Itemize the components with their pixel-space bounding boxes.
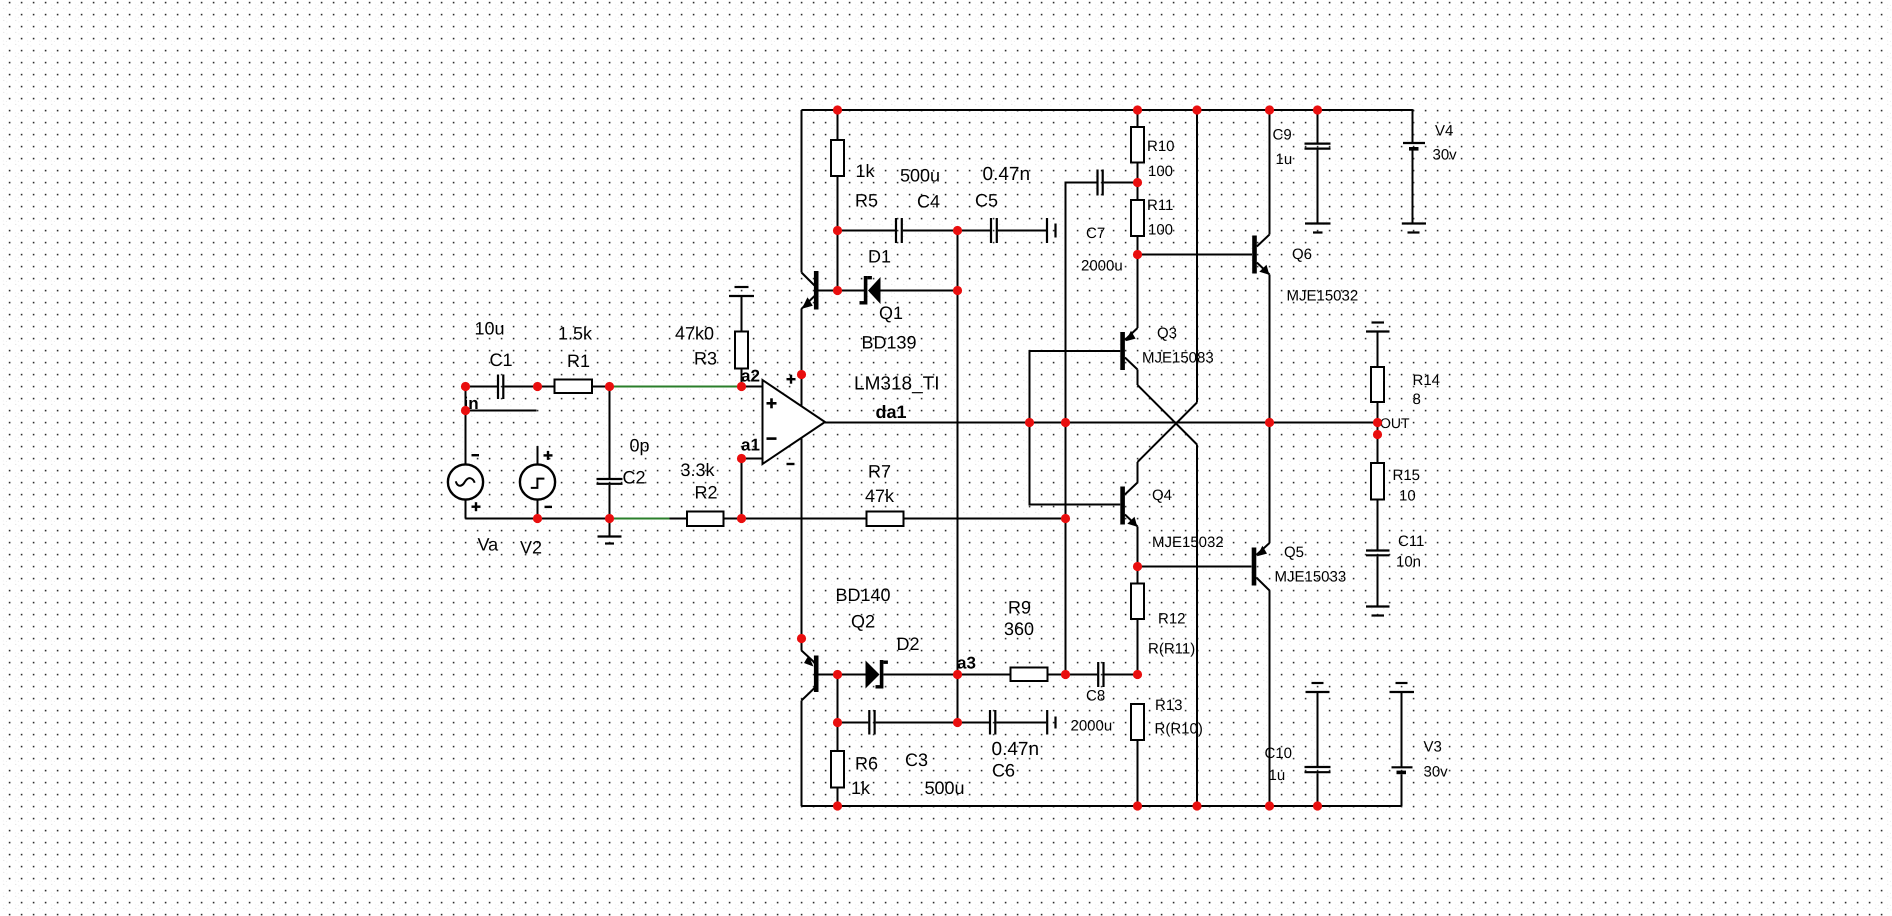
svg-text:C7: C7 bbox=[1086, 225, 1105, 242]
svg-text:LM318_TI: LM318_TI bbox=[854, 374, 940, 395]
junction rail C9 bbox=[1313, 105, 1322, 114]
wire vertical bus x957 bottom bbox=[957, 675, 959, 723]
svg-text:a1: a1 bbox=[741, 436, 760, 455]
transistor Q6 MJE15032 bbox=[1252, 110, 1269, 423]
wire Q3 base line bbox=[1030, 351, 1121, 505]
capacitor C10 bbox=[1305, 692, 1331, 806]
junction R13 bottom rail bbox=[1133, 801, 1142, 810]
junction R11-Q6 base bbox=[1133, 250, 1142, 259]
svg-text:0.47n: 0.47n bbox=[992, 739, 1040, 760]
svg-text:100: 100 bbox=[1148, 163, 1173, 180]
capacitor C4 bbox=[838, 218, 958, 243]
junction a2 bbox=[737, 382, 746, 391]
junction OUT node bbox=[1373, 418, 1382, 427]
resistor R14 bbox=[1371, 332, 1384, 423]
svg-text:D1: D1 bbox=[868, 247, 891, 267]
open capacitor end plate (bottom row) bbox=[1047, 710, 1055, 735]
junction Q1 base bbox=[833, 286, 842, 295]
svg-text:C4: C4 bbox=[917, 192, 940, 212]
svg-text:1.5k: 1.5k bbox=[558, 324, 593, 344]
voltage source Va bbox=[448, 411, 483, 519]
svg-text:MJE15032: MJE15032 bbox=[1152, 534, 1224, 551]
svg-text:R(R10): R(R10) bbox=[1155, 721, 1203, 738]
minus sign op-amp input bbox=[767, 437, 777, 440]
inverted ground above V3 bbox=[1390, 683, 1415, 692]
svg-text:Q2: Q2 bbox=[851, 612, 875, 632]
resistor R7 bbox=[742, 512, 1066, 527]
capacitor C1 bbox=[498, 375, 538, 400]
junction op-amp -V pin bbox=[797, 634, 806, 643]
svg-text:a3: a3 bbox=[957, 654, 976, 673]
resistor R2 bbox=[687, 512, 742, 527]
transistor Q4 MJE15032 bbox=[1120, 462, 1137, 567]
junction node in tag bbox=[461, 406, 470, 415]
svg-text:C5: C5 bbox=[975, 191, 998, 211]
svg-text:R(R11): R(R11) bbox=[1148, 641, 1195, 658]
capacitor C9 bbox=[1305, 110, 1331, 224]
junction C1-R1 bbox=[533, 382, 542, 391]
junction R5-C4 bbox=[833, 226, 842, 235]
inverted ground above C10 bbox=[1306, 683, 1330, 692]
transistor Q5 MJE15033 bbox=[1252, 423, 1270, 807]
resistor R6 bbox=[831, 723, 844, 807]
wire green C2 node to R2 bbox=[612, 518, 670, 520]
svg-text:BD139: BD139 bbox=[862, 333, 917, 353]
junction rail Q5 collector bbox=[1265, 801, 1274, 810]
resistor R15 bbox=[1371, 423, 1384, 551]
svg-text:Q6: Q6 bbox=[1292, 246, 1312, 263]
wire diagonal Q3 to lower bus bbox=[1138, 385, 1198, 445]
svg-text:47k: 47k bbox=[865, 486, 895, 506]
svg-text:2000u: 2000u bbox=[1071, 718, 1113, 735]
ground below C11 bbox=[1366, 607, 1390, 616]
svg-text:R2: R2 bbox=[695, 483, 718, 503]
svg-text:OUT: OUT bbox=[1380, 415, 1410, 431]
junction rail x1197 bottom bbox=[1192, 801, 1201, 810]
junction out Q5-Q6 emitters bbox=[1265, 418, 1274, 427]
junction C6 left bbox=[953, 718, 962, 727]
svg-text:MJE15032: MJE15032 bbox=[1287, 288, 1359, 305]
capacitor C5 bbox=[958, 218, 1047, 243]
resistor R10 bbox=[1131, 110, 1144, 200]
junction rail C10 bbox=[1313, 801, 1322, 810]
svg-text:R15: R15 bbox=[1393, 467, 1421, 484]
svg-text:MJE15033: MJE15033 bbox=[1275, 569, 1347, 586]
minus sign V2 bottom bbox=[545, 506, 553, 508]
wire top positive rail bbox=[802, 109, 1413, 111]
wire vertical bus x957 top bbox=[957, 231, 959, 675]
resistor R3 bbox=[735, 296, 748, 387]
junction R12-R13-C8 bbox=[1133, 670, 1142, 679]
junction R6 bottom rail bbox=[833, 801, 842, 810]
capacitor C6 bbox=[958, 710, 1047, 735]
transistor Q3 MJE15083 bbox=[1120, 255, 1137, 386]
transistor Q1 BD139 bbox=[802, 271, 838, 310]
svg-text:10: 10 bbox=[1399, 488, 1416, 505]
svg-text:2000u: 2000u bbox=[1081, 258, 1123, 275]
wire Q2 base node down bbox=[837, 675, 839, 723]
resistor R1 bbox=[538, 380, 612, 394]
junction out line x1029 bbox=[1025, 418, 1034, 427]
plus sign op-amp supply bbox=[787, 375, 796, 384]
svg-text:R13: R13 bbox=[1155, 697, 1183, 714]
junction V2 bottom bbox=[533, 514, 542, 523]
voltage source V2 bbox=[520, 446, 555, 519]
svg-text:10n: 10n bbox=[1396, 554, 1421, 571]
wire a2 to op-amp bbox=[742, 386, 763, 388]
svg-text:R11: R11 bbox=[1147, 197, 1173, 214]
svg-text:C9: C9 bbox=[1273, 127, 1292, 144]
junction D1 right bbox=[953, 286, 962, 295]
capacitor C11 bbox=[1366, 551, 1390, 607]
wire bottom negative rail bbox=[802, 805, 1402, 807]
wire green in+ to a2 bbox=[611, 386, 741, 388]
svg-text:R6: R6 bbox=[855, 754, 878, 774]
svg-text:R12: R12 bbox=[1158, 611, 1186, 628]
svg-text:D2: D2 bbox=[897, 634, 920, 654]
svg-text:R10: R10 bbox=[1147, 138, 1175, 155]
ground below C2 bbox=[598, 537, 622, 544]
capacitor C2 bbox=[597, 387, 623, 537]
wire in node to C1 bbox=[466, 386, 498, 388]
capacitor C7 bbox=[1098, 170, 1138, 196]
capacitor C3 bbox=[838, 710, 958, 735]
junction rail Q6 collector bbox=[1265, 105, 1274, 114]
svg-text:Q5: Q5 bbox=[1284, 544, 1304, 561]
svg-text:0p: 0p bbox=[630, 436, 650, 456]
svg-text:Q3: Q3 bbox=[1157, 325, 1177, 342]
svg-text:da1: da1 bbox=[876, 402, 907, 422]
resistor R12 bbox=[1131, 567, 1144, 675]
wire a1 to op-amp bbox=[742, 458, 763, 460]
svg-text:8: 8 bbox=[1413, 391, 1421, 408]
op-amp U1 triangle bbox=[763, 380, 826, 464]
wire to R2 bbox=[670, 518, 688, 520]
svg-text:R3: R3 bbox=[694, 349, 717, 369]
svg-text:BD140: BD140 bbox=[836, 585, 891, 605]
battery V3 bbox=[1392, 692, 1413, 806]
svg-text:0.47n: 0.47n bbox=[983, 164, 1031, 185]
junction Q4 emitter R12 bbox=[1133, 562, 1142, 571]
svg-text:C11: C11 bbox=[1398, 533, 1424, 550]
junction R1 out bbox=[605, 382, 614, 391]
minus sign op-amp supply bbox=[787, 463, 795, 465]
svg-text:1k: 1k bbox=[851, 778, 871, 798]
svg-text:Q1: Q1 bbox=[879, 303, 903, 323]
wire lower bus to bottom rail bbox=[1196, 445, 1198, 807]
junction op-amp +V pin bbox=[797, 370, 806, 379]
junction R7 end bbox=[1061, 514, 1070, 523]
wire Q6 base from R11 node bbox=[1138, 254, 1253, 256]
junction rail R10 bbox=[1133, 105, 1142, 114]
plus sign V2 top bbox=[544, 451, 553, 460]
svg-text:R7: R7 bbox=[868, 462, 891, 482]
svg-text:Va: Va bbox=[478, 535, 500, 555]
inverted ground above R14 bbox=[1366, 323, 1390, 332]
svg-text:100: 100 bbox=[1148, 222, 1173, 239]
junction R9-C8 bbox=[1061, 670, 1070, 679]
svg-text:C2: C2 bbox=[623, 468, 646, 488]
svg-text:360: 360 bbox=[1004, 619, 1034, 639]
svg-text:R9: R9 bbox=[1008, 598, 1031, 618]
resistor R9 bbox=[958, 668, 1066, 682]
junction OUT tag bbox=[1373, 430, 1382, 439]
svg-text:1k: 1k bbox=[856, 161, 876, 181]
wire diagonal Q4 to upper bus bbox=[1138, 403, 1198, 463]
capacitor C8 bbox=[1066, 662, 1138, 687]
junction out line x1065 bbox=[1061, 418, 1070, 427]
wire Q5 base from Q4 emitter node bbox=[1138, 566, 1252, 568]
svg-text:C8: C8 bbox=[1086, 688, 1105, 705]
svg-text:30v: 30v bbox=[1424, 764, 1449, 781]
resistor R13 bbox=[1131, 704, 1144, 806]
svg-text:30v: 30v bbox=[1433, 147, 1458, 164]
junction C3 left bbox=[833, 718, 842, 727]
junction a1 bbox=[737, 454, 746, 463]
wire a1 down to R2 node bbox=[741, 459, 743, 519]
transistor Q2 BD140 bbox=[802, 651, 838, 807]
svg-text:C1: C1 bbox=[490, 350, 513, 370]
svg-text:1u: 1u bbox=[1276, 151, 1293, 168]
junction Q2 base bbox=[833, 670, 842, 679]
wire op-amp -V pin down to Q2 emitter bbox=[801, 439, 803, 651]
minus sign Va top bbox=[472, 454, 480, 456]
open capacitor end plate (top row) bbox=[1047, 218, 1056, 243]
svg-text:1u: 1u bbox=[1269, 767, 1286, 784]
diode D2 bbox=[838, 660, 958, 689]
node in (net tag) bbox=[464, 387, 537, 414]
svg-text:R1: R1 bbox=[567, 351, 590, 371]
junction C7-R10 bbox=[1133, 178, 1142, 187]
svg-text:MJE15083: MJE15083 bbox=[1142, 350, 1214, 367]
svg-text:V4: V4 bbox=[1435, 123, 1453, 140]
junction C4-C5 bbox=[953, 226, 962, 235]
junction rail R5 bbox=[833, 105, 842, 114]
svg-text:V3: V3 bbox=[1424, 739, 1442, 756]
junction C2 bottom bbox=[605, 514, 614, 523]
plus sign Va bottom bbox=[472, 502, 481, 511]
plus sign op-amp input bbox=[767, 398, 777, 408]
battery V4 bbox=[1403, 109, 1425, 223]
svg-text:R14: R14 bbox=[1413, 372, 1441, 389]
svg-text:C3: C3 bbox=[905, 750, 928, 770]
diode D1 bbox=[838, 276, 958, 305]
junction rail x1197 top bbox=[1192, 105, 1201, 114]
svg-text:Q4: Q4 bbox=[1152, 487, 1172, 504]
resistor R5 bbox=[831, 110, 844, 291]
resistor R11 bbox=[1131, 200, 1144, 255]
ground below C9 bbox=[1305, 224, 1331, 233]
svg-text:R5: R5 bbox=[855, 191, 878, 211]
wire C7 branch corner bbox=[1066, 183, 1097, 675]
wire op-amp output bbox=[825, 422, 1378, 424]
svg-text:3.3k: 3.3k bbox=[681, 460, 716, 480]
svg-text:10u: 10u bbox=[475, 319, 505, 339]
wire bottom row Va to C2 bbox=[466, 518, 613, 520]
inverted ground above R3 bbox=[729, 287, 754, 296]
svg-text:500u: 500u bbox=[900, 166, 940, 186]
svg-text:47k0: 47k0 bbox=[675, 324, 714, 344]
svg-text:C6: C6 bbox=[992, 761, 1015, 781]
junction R2-R7 bbox=[737, 514, 746, 523]
ground below V4 bbox=[1402, 224, 1426, 233]
junction a3 bbox=[953, 670, 962, 679]
wire op-amp +V pin up to Q1 emitter bbox=[801, 309, 803, 406]
junction node in bbox=[461, 382, 470, 391]
wire rail down to Q1 collector bbox=[801, 110, 803, 273]
svg-text:V2: V2 bbox=[520, 538, 542, 558]
wire upper bus to top rail bbox=[1196, 110, 1198, 403]
svg-text:500u: 500u bbox=[925, 778, 965, 798]
